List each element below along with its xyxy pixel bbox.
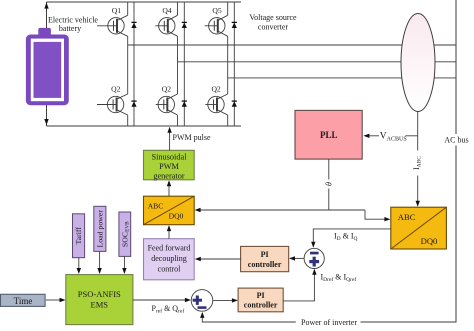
svg-text:Q2: Q2 <box>162 84 171 93</box>
wire AC bus <box>361 0 457 322</box>
svg-text:EMS: EMS <box>91 299 109 309</box>
wire S1 to PI upper <box>289 256 304 260</box>
svg-text:Power of inverter: Power of inverter <box>301 318 357 327</box>
diode D1 wire <box>133 2 135 126</box>
wire power of inverter feedback <box>200 312 296 322</box>
wire top DC rail <box>47 1 242 3</box>
wire phase C <box>228 77 456 79</box>
wire PI lower to S1 <box>283 269 316 301</box>
label Q1 <box>112 6 121 15</box>
svg-text:PWM pulse: PWM pulse <box>173 133 211 142</box>
wire feed forward to abc-dq0 small <box>167 225 171 239</box>
wire abc-dq0 small to pwm generator <box>167 180 171 196</box>
label Voltage source converter <box>249 13 297 31</box>
transistor Q2 leg3 <box>205 94 227 115</box>
wire I_ABC sense <box>416 111 420 206</box>
transistor Q1 <box>97 15 128 36</box>
label Electric vehicle battery <box>48 16 98 33</box>
wire ID IQ feedback <box>311 229 391 248</box>
electric vehicle battery <box>26 28 69 105</box>
block ABC/DQ0 small <box>144 196 195 225</box>
block PI controller lower <box>238 288 283 312</box>
svg-text:ABC: ABC <box>398 212 416 222</box>
svg-text:IDref & IQref: IDref & IQref <box>321 273 357 284</box>
svg-text:decoupling: decoupling <box>151 254 187 263</box>
wire PWM pulse <box>167 127 171 151</box>
label Q5 <box>212 6 221 15</box>
block feed forward decoupling control <box>144 239 195 280</box>
svg-text:Q5: Q5 <box>212 6 221 15</box>
label Q2 leg1 <box>111 84 120 93</box>
svg-text:converter: converter <box>258 22 289 31</box>
transistor Q4 <box>155 15 177 36</box>
block Load power <box>94 206 106 251</box>
block Tariff <box>73 214 85 258</box>
block ABC/DQ0 big <box>391 207 447 249</box>
block sinusoidal PWM generator <box>144 150 195 180</box>
wire phase B <box>178 61 457 63</box>
svg-text:AC bus: AC bus <box>444 136 468 145</box>
svg-text:ABC: ABC <box>148 202 164 211</box>
wire bottom DC rail / gate bus <box>47 125 242 127</box>
diode D6 <box>232 101 237 107</box>
svg-text:generator: generator <box>153 172 185 181</box>
wire phase A <box>128 44 456 46</box>
wire PLL theta output <box>328 159 330 210</box>
svg-text:Q4: Q4 <box>162 6 171 15</box>
diode D4 <box>131 101 136 107</box>
label Q2 leg2 <box>162 84 171 93</box>
block PI controller upper <box>241 246 289 271</box>
wire battery negative lead <box>44 105 48 126</box>
wire SOC to EMS <box>122 256 126 274</box>
svg-text:Q1: Q1 <box>112 6 121 15</box>
block PSO-ANFIS EMS <box>66 275 133 325</box>
wire S2 to PI lower <box>213 298 238 302</box>
transistor Q5 <box>205 15 228 36</box>
svg-text:Q2: Q2 <box>211 84 220 93</box>
label ID and IQ <box>334 232 358 243</box>
svg-text:PI: PI <box>257 291 265 300</box>
svg-text:IABC: IABC <box>412 156 423 170</box>
label PWM pulse <box>173 133 211 142</box>
wire theta to abc-dq0 small <box>195 208 365 212</box>
wire leg 2 <box>177 2 179 126</box>
label Power of inverter <box>301 318 357 327</box>
svg-text:controller: controller <box>248 260 282 269</box>
wire PI upper to feed forward <box>195 257 241 261</box>
wire Tariff to EMS <box>77 258 81 274</box>
svg-text:PWM: PWM <box>159 162 179 171</box>
label theta <box>325 182 334 186</box>
svg-text:Feed forward: Feed forward <box>148 243 191 252</box>
wire theta to abc-dq0 big <box>365 210 390 221</box>
block PLL <box>295 110 362 159</box>
transistor Q2 leg1 <box>97 94 128 115</box>
transformer ellipse <box>401 14 435 112</box>
diode D3 wire <box>233 2 235 126</box>
svg-text:Pref & Qref: Pref & Qref <box>152 304 185 315</box>
svg-text:θ: θ <box>325 182 334 186</box>
diode D2 <box>182 22 187 28</box>
diode D3 <box>232 22 237 28</box>
wire leg 3 <box>227 2 229 126</box>
svg-text:Load power: Load power <box>95 210 104 248</box>
svg-text:battery: battery <box>59 24 81 33</box>
wire V_ACBUS to PLL <box>363 134 417 138</box>
wire Time to EMS <box>46 298 66 302</box>
svg-text:control: control <box>158 264 181 273</box>
label Q4 <box>162 6 171 15</box>
summing junction S2 <box>191 290 213 312</box>
svg-text:PLL: PLL <box>320 130 338 140</box>
svg-text:Q2: Q2 <box>111 84 120 93</box>
svg-text:PSO-ANFIS: PSO-ANFIS <box>78 289 121 299</box>
block SOC_EVB <box>119 212 131 256</box>
svg-text:Time: Time <box>14 296 33 306</box>
label Pref and Qref <box>152 304 185 315</box>
svg-text:PI: PI <box>261 250 269 259</box>
svg-text:Sinusoidal: Sinusoidal <box>151 153 187 162</box>
diode D1 <box>131 22 136 28</box>
summing junction S1 <box>304 248 324 268</box>
wire EMS to S2 <box>133 298 191 302</box>
transistor Q2 leg2 <box>156 94 178 115</box>
svg-text:Tariff: Tariff <box>74 227 83 245</box>
diode D2 wire <box>183 2 185 126</box>
wire leg 1 <box>127 2 129 126</box>
diode D5 <box>182 101 187 107</box>
svg-text:DQ0: DQ0 <box>421 236 438 246</box>
label I_ABC <box>412 156 423 170</box>
block Time <box>1 294 46 306</box>
svg-text:DQ0: DQ0 <box>169 212 184 221</box>
svg-text:Voltage source: Voltage source <box>249 13 297 22</box>
label AC bus <box>444 136 468 145</box>
svg-text:VACBUS: VACBUS <box>380 132 407 143</box>
wire battery positive lead <box>44 2 48 29</box>
label IDref and IQref <box>321 273 357 284</box>
svg-text:controller: controller <box>244 301 278 310</box>
wire Load power to EMS <box>97 251 101 274</box>
svg-text:ID & IQ: ID & IQ <box>334 232 358 243</box>
label V_ACBUS <box>380 132 407 143</box>
label Q2 leg3 <box>211 84 220 93</box>
